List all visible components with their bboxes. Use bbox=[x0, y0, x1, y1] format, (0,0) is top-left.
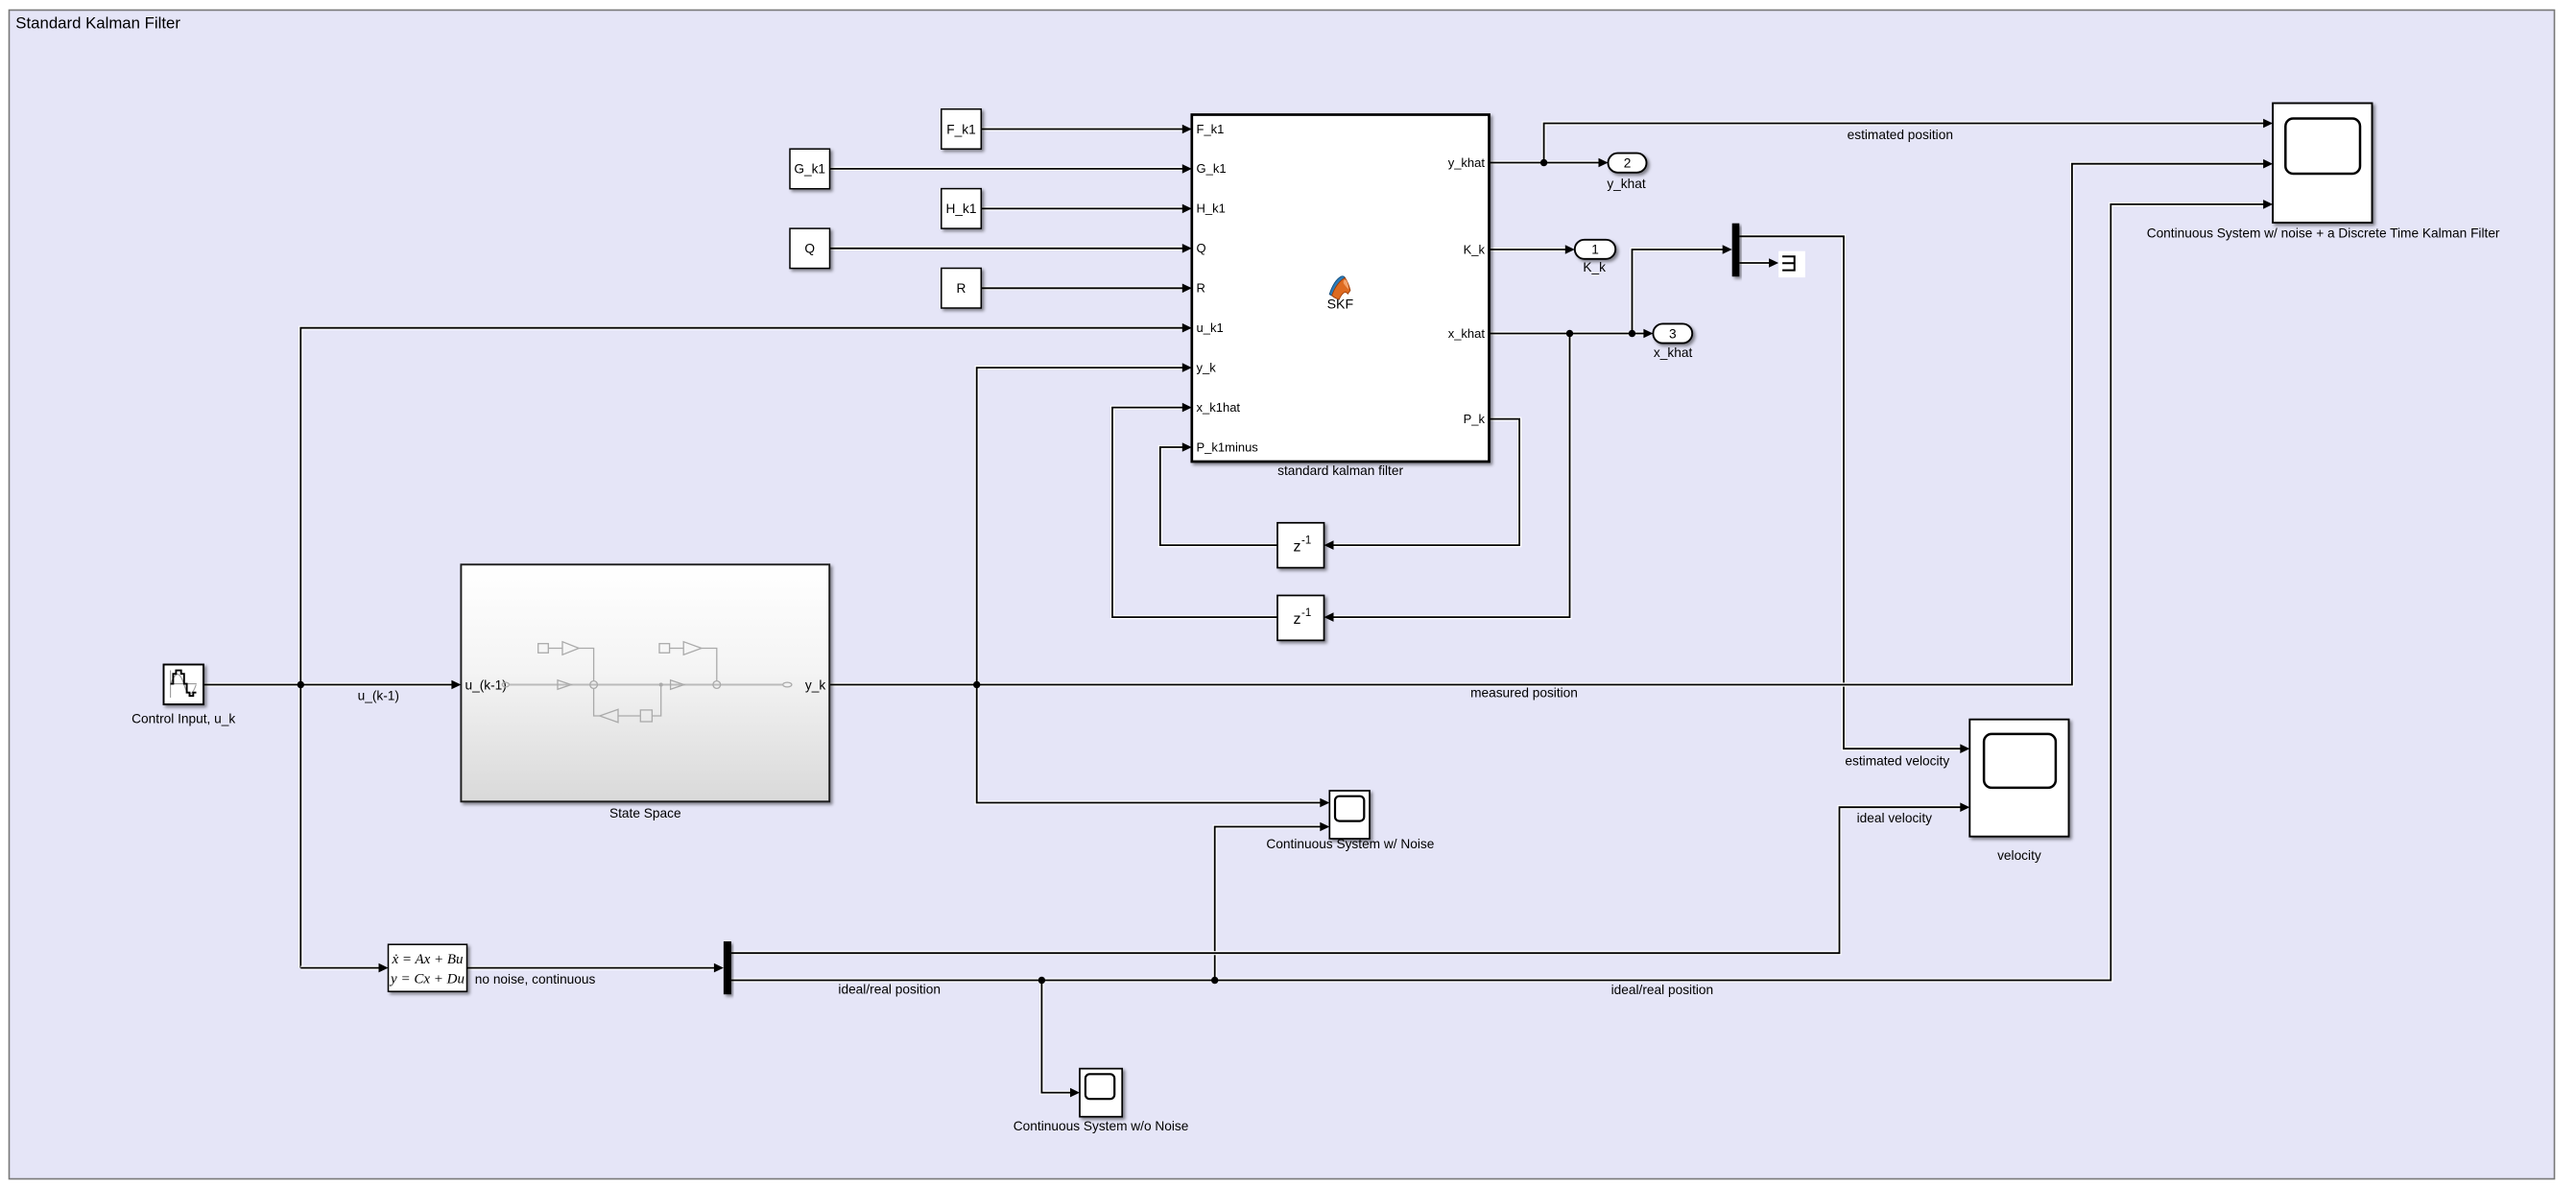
arrowhead into unit delay 1 right side bbox=[1324, 540, 1334, 550]
svg-text:Q: Q bbox=[1197, 241, 1206, 255]
svg-text:State Space: State Space bbox=[609, 806, 681, 820]
svg-text:y_khat: y_khat bbox=[1448, 155, 1486, 170]
state equation block no noise continuous bbox=[389, 944, 467, 991]
svg-text:z: z bbox=[1294, 539, 1301, 556]
scope velocity bbox=[1969, 720, 2068, 837]
constant G_k1 bbox=[790, 149, 830, 189]
wire branch up to w-Noise scope port 2 bbox=[1215, 827, 1322, 981]
scope Continuous System w Noise bbox=[1329, 791, 1370, 839]
constant Q bbox=[790, 228, 830, 269]
svg-text:z: z bbox=[1294, 611, 1301, 628]
arrowhead into outport 3 bbox=[1643, 329, 1653, 339]
arrowhead into port Q bbox=[1182, 244, 1192, 253]
wire x_khat to outport 3 bbox=[1490, 331, 1645, 335]
svg-text:3: 3 bbox=[1669, 326, 1677, 341]
arrowhead into port P_k1minus bbox=[1182, 442, 1192, 452]
arrowhead into top right scope port 1 bbox=[2263, 119, 2273, 129]
svg-text:standard kalman filter: standard kalman filter bbox=[1277, 463, 1403, 478]
svg-text:estimated position: estimated position bbox=[1848, 128, 1953, 142]
svg-text:x_khat: x_khat bbox=[1654, 345, 1693, 360]
svg-text:x_khat: x_khat bbox=[1448, 326, 1486, 341]
svg-text:Continuous System w/o Noise: Continuous System w/o Noise bbox=[1014, 1119, 1189, 1133]
arrowhead into port F_k1 bbox=[1182, 125, 1192, 134]
wire demux out 2 to terminator bbox=[1739, 261, 1770, 265]
junction control input riser bbox=[298, 681, 304, 688]
arrowhead into upper demux bbox=[1723, 245, 1732, 254]
svg-text:u_(k-1): u_(k-1) bbox=[465, 677, 507, 692]
demux lower bbox=[724, 941, 731, 994]
junction ideal real position to w-o-Noise scope bbox=[1038, 977, 1045, 984]
svg-text:x_k1hat: x_k1hat bbox=[1197, 400, 1241, 415]
svg-text:F_k1: F_k1 bbox=[946, 122, 975, 136]
svg-text:R: R bbox=[1197, 281, 1205, 296]
demux upper bbox=[1732, 224, 1740, 277]
scope Continuous System w-o Noise bbox=[1080, 1069, 1122, 1117]
svg-text:K_k: K_k bbox=[1464, 242, 1486, 256]
wire branch down to w-o-Noise scope bbox=[1041, 981, 1071, 1093]
arrowhead into outport 2 bbox=[1599, 158, 1609, 168]
subsystem State Space bbox=[461, 564, 829, 801]
wire y_k riser from measured position to port y_k bbox=[977, 368, 1183, 684]
wire F_k1 const to port F_k1 bbox=[981, 127, 1183, 131]
outport 2 y_khat bbox=[1609, 154, 1647, 173]
svg-text:ideal/real position: ideal/real position bbox=[838, 983, 941, 997]
svg-text:no noise, continuous: no noise, continuous bbox=[475, 972, 596, 986]
arrowhead into w-o-Noise scope bbox=[1070, 1088, 1080, 1098]
svg-text:measured position: measured position bbox=[1470, 685, 1578, 700]
svg-text:u_k1: u_k1 bbox=[1197, 321, 1224, 335]
wire Control Input to State Space bbox=[203, 682, 453, 686]
arrowhead into top right scope port 2 bbox=[2263, 159, 2273, 169]
arrowhead into State Space bbox=[451, 680, 461, 690]
arrowhead into eq block bbox=[379, 963, 389, 973]
junction ideal real position to w-Noise scope bbox=[1211, 977, 1218, 984]
svg-text:Continuous System w/ noise + a: Continuous System w/ noise + a Discrete … bbox=[2147, 226, 2500, 240]
constant H_k1 bbox=[942, 189, 982, 229]
svg-text:P_k1minus: P_k1minus bbox=[1197, 440, 1259, 454]
svg-text:y_khat: y_khat bbox=[1607, 177, 1646, 191]
svg-text:F_k1: F_k1 bbox=[1197, 122, 1225, 136]
svg-text:SKF: SKF bbox=[1327, 297, 1354, 313]
unit delay 1 (flipped) bbox=[1277, 523, 1324, 568]
wire y_khat to outport 2 bbox=[1490, 160, 1600, 164]
wire estimated position riser and run to scope port 1 bbox=[1544, 124, 2264, 163]
svg-text:Standard Kalman Filter: Standard Kalman Filter bbox=[15, 14, 180, 33]
svg-text:ideal/real position: ideal/real position bbox=[1611, 983, 1714, 997]
svg-text:2: 2 bbox=[1624, 155, 1632, 170]
wire K_k to outport 1 bbox=[1490, 248, 1566, 251]
svg-text:G_k1: G_k1 bbox=[794, 162, 825, 177]
wire Q const to port Q bbox=[830, 247, 1183, 250]
svg-text:Q: Q bbox=[804, 242, 815, 256]
wire eq block to lower demux bbox=[467, 965, 715, 969]
arrowhead into terminator bbox=[1769, 258, 1778, 268]
outport 3 x_khat bbox=[1653, 323, 1692, 343]
constant F_k1 bbox=[942, 109, 982, 150]
arrowhead into w-Noise scope port 2 bbox=[1320, 822, 1329, 832]
arrowhead into outport 1 bbox=[1565, 245, 1575, 254]
wire x_khat branch down to unit delay 2 input bbox=[1333, 334, 1570, 618]
wire lower demux out 2 ideal real position to top right scope port 3 bbox=[731, 204, 2264, 981]
arrowhead into velocity scope port 2 bbox=[1960, 802, 1969, 812]
svg-text:y_k: y_k bbox=[805, 677, 825, 692]
svg-text:ẋ = Ax + Bu: ẋ = Ax + Bu bbox=[391, 952, 463, 967]
terminator bbox=[1778, 251, 1805, 277]
svg-text:-1: -1 bbox=[1301, 535, 1311, 547]
wire P_k1minus from unit delay 1 output bbox=[1160, 447, 1277, 545]
scope top right Continuous System w noise + Kalman bbox=[2273, 104, 2372, 224]
svg-text:1: 1 bbox=[1591, 243, 1599, 257]
svg-text:P_k: P_k bbox=[1464, 412, 1486, 426]
arrowhead into port x_k1hat bbox=[1182, 403, 1192, 413]
wire lower demux out 1 ideal velocity to velocity scope port 2 bbox=[731, 807, 1961, 953]
wire x_khat branch up to demux input bbox=[1633, 249, 1724, 334]
arrowhead into lower demux bbox=[714, 963, 724, 973]
wire R const to port R bbox=[981, 286, 1183, 290]
wire H_k1 const to port H_k1 bbox=[981, 206, 1183, 210]
svg-text:-1: -1 bbox=[1301, 607, 1311, 619]
svg-text:y_k: y_k bbox=[1197, 360, 1217, 374]
svg-text:R: R bbox=[957, 281, 966, 296]
wire P_k down to unit delay 1 input bbox=[1333, 419, 1520, 545]
svg-text:ideal velocity: ideal velocity bbox=[1857, 811, 1933, 825]
arrowhead into port R bbox=[1182, 284, 1192, 294]
svg-text:K_k: K_k bbox=[1583, 260, 1606, 274]
MATLAB logo in SKF block bbox=[1329, 276, 1350, 299]
arrowhead into port y_k bbox=[1182, 363, 1192, 372]
junction x_khat wire to unit delay 2 bbox=[1566, 330, 1573, 337]
junction estimated position riser on y_khat wire bbox=[1540, 159, 1547, 166]
unit delay 2 (flipped) bbox=[1277, 596, 1324, 641]
arrowhead into unit delay 2 right side bbox=[1324, 612, 1334, 622]
svg-text:y = Cx + Du: y = Cx + Du bbox=[389, 972, 465, 987]
arrowhead into port G_k1 bbox=[1182, 164, 1192, 174]
wire measured position from State Space y_k to top right scope port 2 bbox=[829, 164, 2264, 685]
arrowhead into port u_k1 bbox=[1182, 323, 1192, 333]
svg-text:velocity: velocity bbox=[1997, 848, 2041, 863]
svg-text:u_(k-1): u_(k-1) bbox=[358, 689, 399, 703]
wire u_k1 riser and run to port u_k1 bbox=[300, 328, 1183, 968]
wire riser to eq block bbox=[300, 965, 379, 969]
inner icon sketch bbox=[502, 642, 792, 723]
junction x_khat wire to demux bbox=[1629, 330, 1635, 337]
svg-text:H_k1: H_k1 bbox=[1197, 202, 1226, 216]
wire G_k1 const to port G_k1 bbox=[830, 167, 1183, 171]
outport 1 K_k bbox=[1575, 240, 1615, 259]
wire demux out 1 estimated velocity to velocity scope port 1 bbox=[1739, 236, 1961, 748]
arrowhead into top right scope port 3 bbox=[2263, 200, 2273, 209]
junction y_k riser on measured position wire bbox=[973, 681, 980, 688]
arrowhead into velocity scope port 1 bbox=[1960, 744, 1969, 753]
MATLAB function block standard kalman filter bbox=[1192, 115, 1490, 463]
svg-text:G_k1: G_k1 bbox=[1197, 161, 1227, 176]
svg-text:Control Input, u_k: Control Input, u_k bbox=[131, 711, 235, 725]
source block Control Input bbox=[164, 665, 204, 705]
svg-text:Continuous System w/ Noise: Continuous System w/ Noise bbox=[1266, 837, 1434, 851]
svg-text:estimated velocity: estimated velocity bbox=[1845, 754, 1949, 769]
arrowhead into port H_k1 bbox=[1182, 204, 1192, 214]
svg-text:H_k1: H_k1 bbox=[946, 202, 977, 216]
wire branch down to w-Noise scope port 1 bbox=[977, 685, 1322, 803]
arrowhead into w-Noise scope port 1 bbox=[1320, 798, 1329, 808]
constant R bbox=[942, 269, 982, 309]
wire x_k1hat from unit delay 2 output bbox=[1112, 408, 1277, 617]
